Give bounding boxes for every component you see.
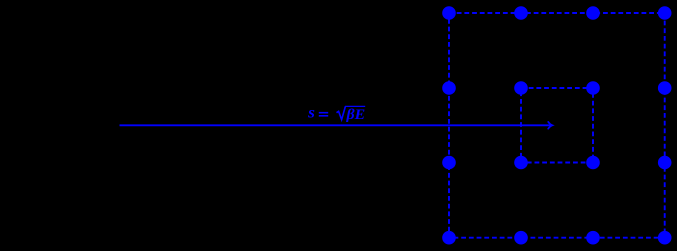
field dot row4 col1	[442, 231, 456, 245]
field dot row4 col4	[658, 231, 672, 245]
velocity arrow shaft	[120, 124, 551, 126]
field dot row3 col4	[658, 156, 672, 170]
field dot row2 col4	[658, 81, 672, 95]
field dot row2 col1	[442, 81, 456, 95]
field dot row1 col3	[586, 6, 600, 20]
field dot row3 col2	[514, 156, 528, 170]
radical overbar	[345, 105, 365, 107]
label equals top bar	[319, 112, 328, 114]
field dot row1 col1	[442, 6, 456, 20]
inner dashed square	[521, 88, 593, 163]
outer dashed square (field boundary)	[449, 13, 665, 238]
field dot row1 col4	[658, 6, 672, 20]
svg-text:s: s	[307, 105, 315, 122]
field dot row2 col3	[586, 81, 600, 95]
field dot row2 col2	[514, 81, 528, 95]
field dot row3 col1	[442, 156, 456, 170]
field dot row4 col2	[514, 231, 528, 245]
radical sign	[337, 106, 346, 119]
label equals bottom bar	[319, 115, 328, 117]
svg-text:βE: βE	[345, 107, 365, 123]
velocity arrowhead	[548, 122, 552, 129]
field dot row3 col3	[586, 156, 600, 170]
field dot row1 col2	[514, 6, 528, 20]
field dot row4 col3	[586, 231, 600, 245]
